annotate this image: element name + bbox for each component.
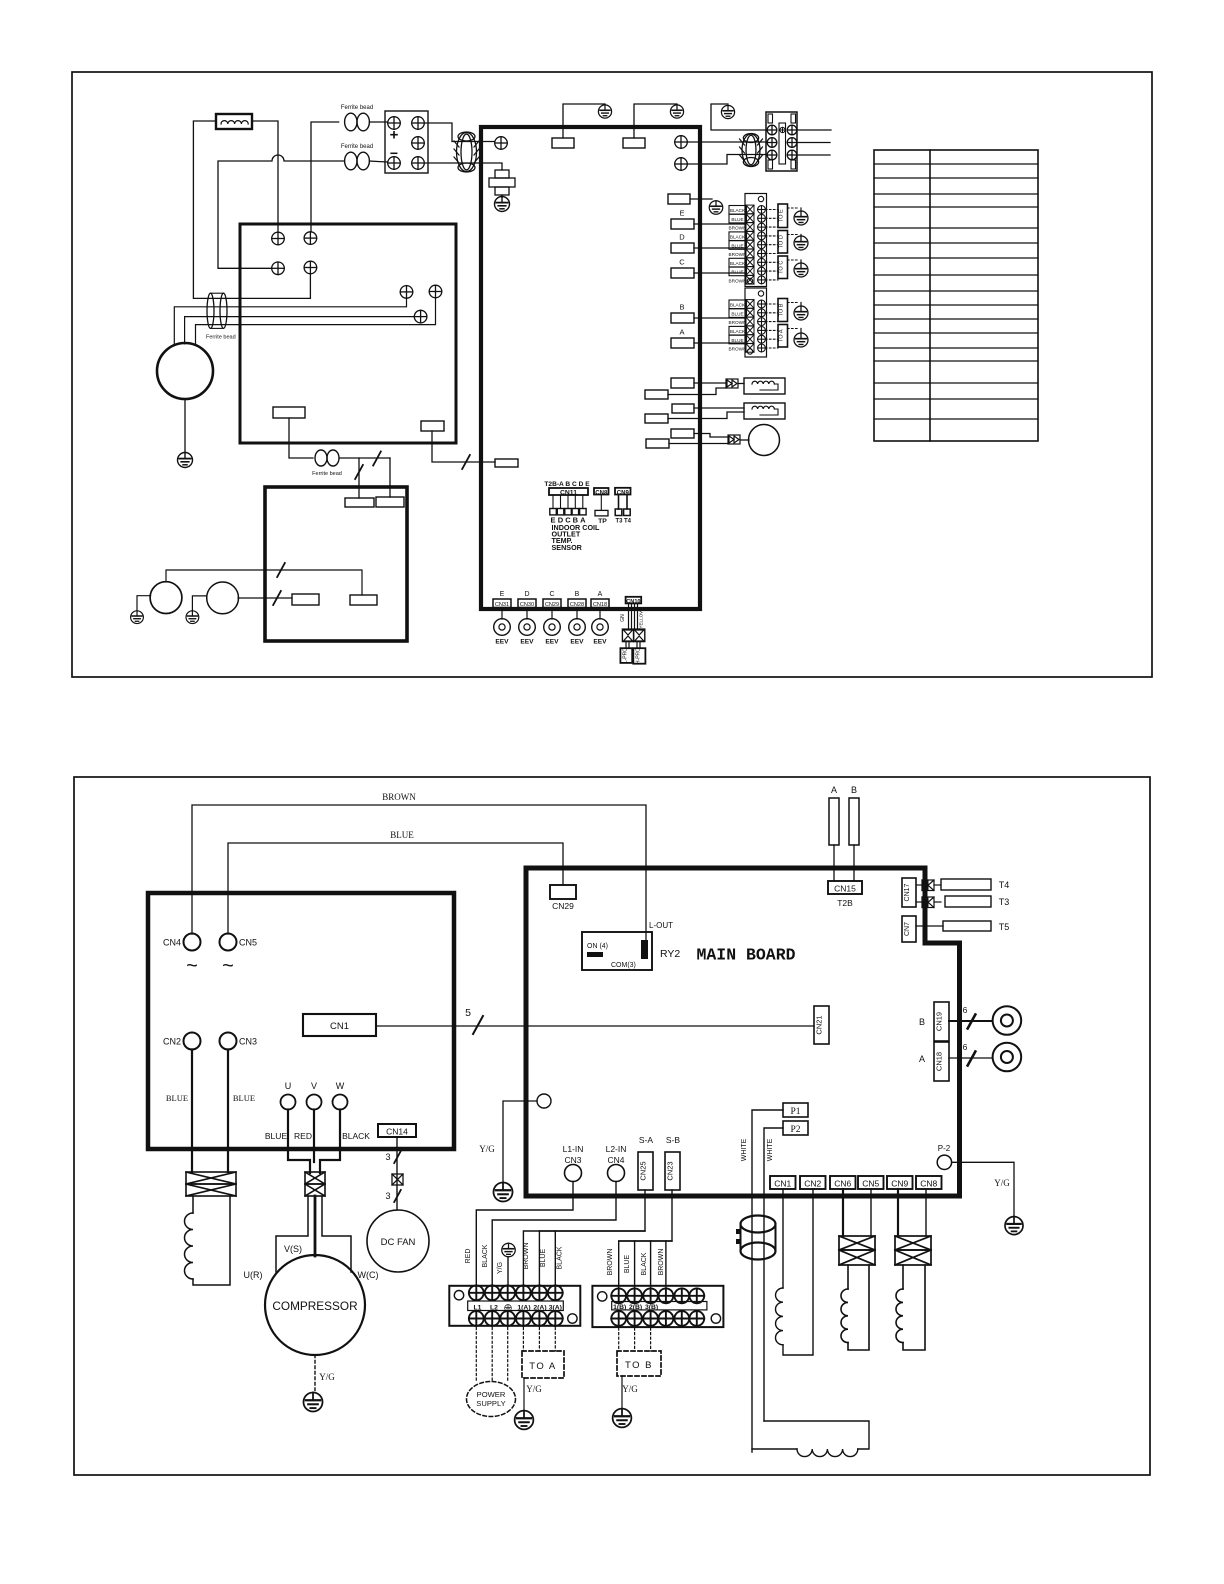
svg-text:RED: RED	[294, 1131, 312, 1141]
svg-text:CN25: CN25	[639, 1161, 648, 1180]
svg-text:BLACK: BLACK	[730, 235, 746, 240]
svg-text:S-A: S-A	[639, 1135, 654, 1145]
svg-text:A: A	[598, 591, 603, 598]
svg-text:Ferrite bead: Ferrite bead	[312, 471, 342, 477]
svg-text:1(A): 1(A)	[517, 1305, 530, 1312]
svg-text:B: B	[575, 591, 580, 598]
svg-text:BLACK: BLACK	[730, 261, 746, 266]
svg-text:ON (4): ON (4)	[587, 943, 608, 950]
svg-text:Y/G: Y/G	[497, 1262, 504, 1274]
svg-text:V: V	[311, 1081, 317, 1091]
svg-text:TO C: TO C	[779, 261, 785, 274]
svg-text:CN21: CN21	[815, 1015, 824, 1034]
svg-text:BROWN: BROWN	[382, 792, 416, 802]
svg-text:A: A	[919, 1054, 925, 1064]
svg-text:Ferrite bead: Ferrite bead	[206, 335, 236, 341]
svg-text:5: 5	[465, 1007, 471, 1019]
svg-text:CN9: CN9	[891, 1179, 908, 1189]
svg-text:MAIN BOARD: MAIN BOARD	[696, 946, 795, 965]
svg-text:3: 3	[385, 1152, 390, 1162]
svg-text:DC FAN: DC FAN	[381, 1237, 416, 1248]
svg-text:TO D: TO D	[779, 235, 785, 248]
svg-text:BROWN: BROWN	[729, 347, 747, 352]
svg-text:6: 6	[963, 1005, 968, 1015]
svg-text:+: +	[390, 127, 399, 144]
svg-text:CN14: CN14	[386, 1127, 408, 1137]
svg-text:BLUE: BLUE	[233, 1093, 255, 1103]
svg-text:Ferrite bead: Ferrite bead	[341, 144, 373, 150]
svg-text:T5: T5	[999, 922, 1010, 932]
svg-text:6: 6	[963, 1042, 968, 1052]
svg-text:CN2: CN2	[163, 1037, 181, 1047]
svg-text:CN7: CN7	[904, 922, 911, 936]
svg-text:TO B: TO B	[625, 1360, 653, 1371]
svg-text:E: E	[679, 209, 684, 218]
svg-text:Y/G: Y/G	[479, 1144, 495, 1154]
svg-text:T3: T3	[615, 519, 623, 525]
svg-text:CN6: CN6	[834, 1179, 851, 1189]
svg-text:BLACK: BLACK	[641, 1252, 648, 1275]
svg-text:B: B	[851, 785, 857, 795]
svg-text:B: B	[919, 1017, 925, 1027]
svg-text:EEV: EEV	[520, 639, 534, 646]
svg-text:TO E: TO E	[779, 209, 785, 222]
svg-text:W: W	[336, 1081, 345, 1091]
svg-text:BLACK: BLACK	[730, 329, 746, 334]
svg-text:2(B): 2(B)	[629, 1304, 642, 1311]
svg-text:2(A): 2(A)	[533, 1305, 546, 1312]
svg-text:CN4: CN4	[163, 938, 181, 948]
svg-text:BLACK: BLACK	[730, 208, 746, 213]
svg-text:CN15: CN15	[834, 884, 856, 894]
svg-text:P1: P1	[790, 1107, 800, 1117]
svg-text:CN19: CN19	[935, 1012, 944, 1031]
svg-text:~: ~	[186, 955, 198, 977]
svg-text:RED: RED	[465, 1249, 472, 1264]
svg-text:CN3: CN3	[239, 1037, 257, 1047]
svg-text:BROWN: BROWN	[607, 1249, 614, 1276]
svg-text:T2B-A B C D E: T2B-A B C D E	[544, 481, 590, 488]
svg-text:L2-IN: L2-IN	[606, 1144, 627, 1154]
svg-text:U: U	[285, 1081, 292, 1091]
svg-text:Y/G: Y/G	[319, 1372, 335, 1382]
svg-text:CN2: CN2	[804, 1179, 821, 1189]
svg-text:RY2: RY2	[660, 948, 680, 960]
svg-text:L1: L1	[474, 1305, 482, 1312]
svg-text:L-PRO: L-PRO	[622, 648, 628, 663]
svg-text:BROWN: BROWN	[729, 320, 747, 325]
svg-text:BROWN: BROWN	[729, 252, 747, 257]
svg-text:EEV: EEV	[545, 639, 559, 646]
svg-text:T2B: T2B	[837, 898, 853, 908]
svg-text:BLUE: BLUE	[540, 1249, 547, 1268]
svg-text:CN5: CN5	[862, 1179, 879, 1189]
svg-text:BLACK: BLACK	[557, 1246, 564, 1269]
svg-text:C: C	[549, 591, 554, 598]
svg-text:SENSOR: SENSOR	[552, 543, 583, 552]
svg-text:BROWN: BROWN	[729, 226, 747, 231]
svg-text:T3: T3	[999, 897, 1010, 907]
svg-text:T4: T4	[999, 880, 1010, 890]
svg-text:WHITE: WHITE	[767, 1138, 774, 1161]
svg-text:EEV: EEV	[495, 639, 509, 646]
svg-text:TO B: TO B	[779, 303, 785, 316]
svg-text:CN1: CN1	[330, 1021, 349, 1032]
svg-text:CN5: CN5	[239, 938, 257, 948]
svg-text:CN11: CN11	[560, 490, 577, 497]
svg-text:L-OUT: L-OUT	[649, 921, 673, 930]
svg-text:A: A	[831, 785, 837, 795]
svg-text:CN23: CN23	[666, 1161, 675, 1180]
svg-text:YELLOW: YELLOW	[639, 609, 644, 629]
svg-text:CN1: CN1	[774, 1179, 791, 1189]
svg-text:BLACK: BLACK	[730, 303, 746, 308]
svg-text:3: 3	[385, 1191, 390, 1201]
svg-text:COMPRESSOR: COMPRESSOR	[272, 1299, 357, 1313]
svg-text:E: E	[500, 591, 505, 598]
svg-text:BLUE: BLUE	[731, 311, 743, 316]
svg-text:L1-IN: L1-IN	[563, 1144, 584, 1154]
svg-text:1(B): 1(B)	[613, 1304, 626, 1311]
svg-text:~: ~	[222, 955, 234, 977]
svg-text:BLUE: BLUE	[731, 217, 743, 222]
svg-text:CN17: CN17	[904, 883, 911, 901]
svg-text:TO A: TO A	[779, 329, 785, 342]
svg-text:COM(3): COM(3)	[611, 962, 636, 969]
svg-text:P-2: P-2	[938, 1144, 951, 1153]
svg-text:BLUE: BLUE	[390, 830, 414, 840]
svg-text:T4: T4	[624, 519, 632, 525]
svg-text:L2: L2	[490, 1305, 498, 1312]
svg-text:Y/G: Y/G	[994, 1178, 1010, 1188]
svg-text:A: A	[679, 328, 684, 337]
svg-text:WHITE: WHITE	[741, 1138, 748, 1161]
svg-text:BROWN: BROWN	[523, 1243, 530, 1270]
svg-text:BLUE: BLUE	[624, 1255, 631, 1274]
svg-text:V(S): V(S)	[284, 1244, 302, 1254]
svg-text:BROWN: BROWN	[658, 1249, 665, 1276]
svg-text:CN8: CN8	[920, 1179, 937, 1189]
svg-text:CN29: CN29	[552, 901, 574, 911]
svg-text:Y/G: Y/G	[526, 1384, 542, 1394]
svg-text:H-PRO: H-PRO	[635, 648, 641, 664]
svg-text:EEV: EEV	[570, 639, 584, 646]
svg-text:TO A: TO A	[529, 1361, 556, 1372]
svg-text:BLACK: BLACK	[342, 1131, 370, 1141]
svg-text:−: −	[390, 145, 398, 161]
svg-text:BLACK: BLACK	[482, 1244, 489, 1267]
svg-text:W(C): W(C)	[358, 1270, 379, 1280]
svg-text:BLUE: BLUE	[731, 270, 743, 275]
svg-text:BROWN: BROWN	[729, 279, 747, 284]
svg-text:BLUE: BLUE	[166, 1093, 188, 1103]
svg-text:POWER: POWER	[477, 1390, 506, 1399]
svg-text:Y/G: Y/G	[622, 1384, 638, 1394]
svg-text:CN18: CN18	[935, 1052, 944, 1071]
svg-text:EEV: EEV	[593, 639, 607, 646]
svg-text:CN3: CN3	[564, 1155, 581, 1165]
svg-text:GN: GN	[620, 614, 626, 622]
svg-text:D: D	[679, 233, 685, 242]
svg-text:SUPPLY: SUPPLY	[476, 1399, 505, 1408]
svg-text:3(B): 3(B)	[645, 1304, 658, 1311]
svg-text:D: D	[524, 591, 529, 598]
svg-text:BLUE: BLUE	[265, 1131, 288, 1141]
svg-text:S-B: S-B	[666, 1135, 681, 1145]
svg-text:CN4: CN4	[607, 1155, 624, 1165]
svg-text:BLUE: BLUE	[731, 338, 743, 343]
svg-text:3(A): 3(A)	[549, 1305, 562, 1312]
svg-text:P2: P2	[790, 1125, 800, 1135]
svg-text:C: C	[679, 258, 685, 267]
svg-text:B: B	[679, 303, 684, 312]
svg-text:Ferrite bead: Ferrite bead	[341, 105, 373, 111]
svg-text:TP: TP	[598, 518, 607, 525]
svg-text:U(R): U(R)	[244, 1270, 263, 1280]
